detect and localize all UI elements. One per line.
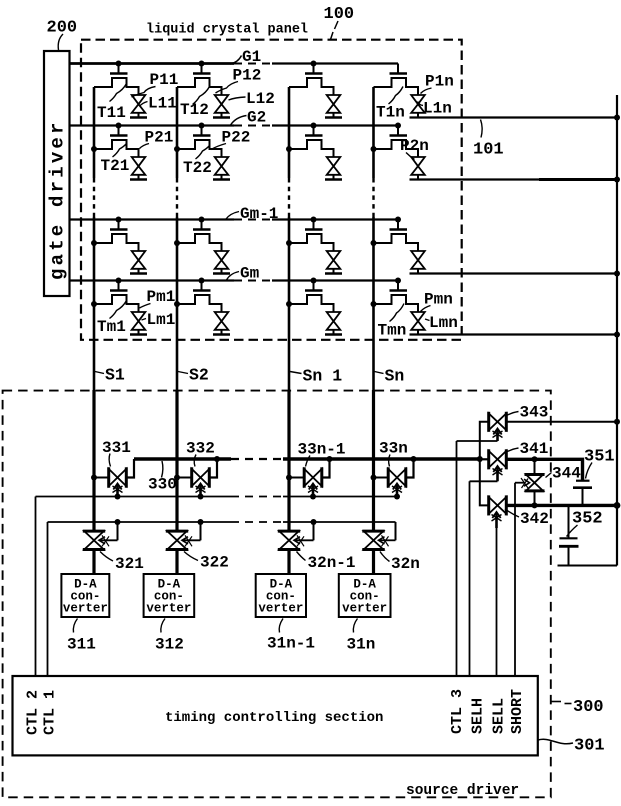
gate line Gm-1 — [70, 218, 399, 220]
control arrow into 33n-1 — [308, 484, 318, 497]
label 200 — [47, 19, 78, 51]
LC pixel Lm-11 — [130, 251, 147, 274]
transistor T1n — [374, 64, 419, 96]
svg-text:verter: verter — [342, 602, 387, 616]
svg-text:P2n: P2n — [400, 137, 429, 155]
svg-text:G1: G1 — [242, 48, 261, 66]
svg-text:343: 343 — [520, 404, 549, 422]
label 311 — [67, 619, 96, 654]
analog switch 341 — [489, 449, 507, 469]
liquid crystal panel boundary 100 — [81, 40, 462, 340]
svg-text:351: 351 — [584, 448, 615, 467]
LC pixel L1n — [411, 95, 425, 118]
wire common electrode row1 to 101 line — [410, 115, 621, 121]
svg-text:source driver: source driver — [406, 783, 519, 799]
D-A converter 31n — [339, 574, 391, 617]
transistor Tmn3 — [289, 278, 334, 313]
label P22 — [211, 129, 250, 150]
capacitor 351 — [573, 481, 592, 506]
D-A converter 311 — [61, 574, 109, 617]
LC pixel L23 — [325, 157, 342, 180]
label 341 — [507, 440, 549, 458]
transistor T11 — [94, 61, 139, 96]
label 33n — [379, 440, 408, 467]
gate line G1 — [70, 62, 399, 65]
svg-text:Sn 1: Sn 1 — [303, 367, 343, 386]
svg-text:CTL 2: CTL 2 — [25, 690, 42, 735]
label 332 — [186, 440, 215, 467]
transistor T21 — [94, 123, 139, 158]
wire 33n-1 input from Sn-1 — [289, 477, 304, 479]
svg-text:330: 330 — [148, 476, 177, 494]
wire 344 bottom lead — [534, 491, 536, 506]
source driver boundary 301 — [3, 391, 551, 798]
LC pixel Lmn — [411, 312, 425, 335]
svg-text:Lmn: Lmn — [429, 314, 458, 332]
control arrow into 342 — [492, 512, 502, 528]
wire 332 output riser to bus 330 — [209, 459, 217, 478]
LC pixel L12 — [213, 95, 230, 118]
LC pixel Lm1 — [130, 312, 147, 335]
label 312 — [155, 619, 184, 654]
analog switch 32n — [362, 531, 384, 549]
wire 343 output to 101 line — [507, 419, 621, 425]
label 351 — [584, 448, 615, 479]
svg-text:332: 332 — [186, 440, 215, 458]
junction dots on source lines — [91, 146, 377, 481]
wire common electrode row3 to 101 line — [410, 271, 621, 277]
svg-text:timing controlling section: timing controlling section — [165, 710, 383, 726]
transistor T22 — [177, 123, 222, 158]
analog switch 332 — [192, 467, 210, 487]
svg-text:T22: T22 — [183, 159, 212, 177]
svg-text:311: 311 — [67, 636, 96, 654]
D-A converter 312 — [144, 574, 195, 617]
wire 331 input from S1 — [94, 477, 109, 479]
svg-text:33n: 33n — [379, 440, 408, 458]
LC pixel Lm-1n — [411, 251, 425, 274]
label 330 — [148, 461, 177, 494]
svg-text:T11: T11 — [97, 104, 126, 122]
wire bus node riser to 343/342 inputs — [480, 422, 489, 506]
label 342 — [505, 509, 549, 528]
control arrow into 33n — [392, 484, 402, 497]
svg-text:SELL: SELL — [491, 698, 508, 734]
label 301 — [538, 737, 605, 756]
svg-text:verter: verter — [63, 602, 108, 616]
svg-text:SHORT: SHORT — [509, 689, 526, 734]
label Sn — [375, 367, 405, 386]
gate driver box 200 — [44, 51, 70, 296]
LC pixel L13 — [325, 95, 342, 118]
svg-text:G2: G2 — [247, 109, 266, 127]
svg-text:T1n: T1n — [376, 104, 405, 122]
bus 330 — [134, 456, 483, 462]
svg-text:322: 322 — [200, 554, 229, 572]
wire SELL to 342 control — [496, 528, 498, 676]
label L12 — [229, 90, 275, 108]
svg-text:101: 101 — [473, 141, 504, 160]
control arrow into 331 — [113, 484, 123, 497]
label G2 — [231, 109, 267, 127]
wire CTL1 control line for 32x switches — [48, 519, 396, 676]
wire SHORT to 344 control — [515, 478, 530, 676]
svg-text:301: 301 — [574, 737, 605, 756]
label Pm1 — [140, 288, 176, 308]
label 343 — [507, 404, 549, 422]
label G1 — [230, 48, 261, 66]
capacitor 352 — [559, 505, 579, 565]
label Gm — [227, 265, 260, 283]
label Gm-1 — [226, 205, 278, 223]
label Lm1 — [142, 311, 176, 329]
analog switch 331 — [109, 467, 127, 487]
wire 33n input from Sn — [374, 477, 389, 479]
transistor T13 — [289, 61, 334, 96]
svg-text:liquid crystal panel: liquid crystal panel — [146, 23, 308, 38]
label P1n — [421, 73, 454, 94]
label Tm1 — [97, 301, 127, 337]
transistor T2n — [374, 123, 419, 158]
wire 344 top lead — [534, 459, 536, 473]
control arrow into 322 — [182, 522, 201, 546]
wire CTL2 control line for 33x switches — [36, 494, 401, 677]
svg-text:300: 300 — [573, 698, 604, 717]
svg-text:SELH: SELH — [470, 698, 487, 734]
analog switch 33n — [388, 467, 406, 487]
wire CTL3 to 343 control — [457, 441, 498, 676]
LC pixel L22 — [213, 157, 230, 180]
label Lmn — [425, 314, 458, 332]
svg-text:verter: verter — [146, 602, 191, 616]
label 31n-1 — [267, 619, 315, 653]
analog switch 33n-1 — [304, 467, 322, 487]
D-A converter 31n-1 — [256, 574, 306, 617]
label T11 — [97, 84, 127, 123]
wire 331 output riser to bus 330 — [126, 459, 134, 478]
label T12 — [180, 87, 210, 120]
svg-text:verter: verter — [258, 602, 303, 616]
svg-text:T21: T21 — [101, 157, 130, 175]
svg-text:Sn: Sn — [385, 367, 405, 386]
label 321 — [100, 552, 144, 574]
LC pixel L21 — [130, 157, 147, 180]
control arrow into 343 — [493, 429, 503, 442]
label P12 — [216, 67, 262, 94]
svg-text:342: 342 — [520, 510, 549, 528]
svg-text:341: 341 — [520, 440, 549, 458]
label 32n-1 — [297, 552, 356, 573]
wire common electrode row2 to 101 line — [410, 177, 621, 183]
control arrow into 341 — [493, 466, 503, 481]
svg-text:Lm1: Lm1 — [147, 311, 176, 329]
analog switch 342 — [489, 495, 507, 515]
analog switch 32n-1 — [278, 531, 300, 549]
control arrow into 32n-1 — [294, 522, 314, 546]
label Sn-1 — [290, 367, 342, 386]
svg-text:331: 331 — [102, 439, 131, 457]
svg-text:Gm-1: Gm-1 — [240, 205, 278, 223]
LC pixel L2n — [411, 157, 425, 180]
label 100 — [324, 5, 355, 40]
svg-text:32n: 32n — [391, 555, 420, 573]
svg-text:L12: L12 — [246, 90, 275, 108]
label 344 — [546, 465, 582, 483]
LC pixel Lm-13 — [325, 251, 342, 274]
svg-text:Gm: Gm — [240, 265, 260, 283]
svg-text:100: 100 — [324, 5, 355, 24]
source line S2 — [176, 87, 179, 574]
svg-text:CTL 1: CTL 1 — [42, 690, 59, 735]
svg-text:32n-1: 32n-1 — [308, 554, 356, 572]
svg-text:S1: S1 — [105, 366, 125, 385]
svg-text:S2: S2 — [189, 366, 209, 385]
svg-text:31n: 31n — [347, 636, 376, 654]
label T1n — [376, 87, 405, 122]
svg-text:gate driver: gate driver — [47, 119, 69, 280]
svg-text:312: 312 — [155, 636, 184, 654]
source line S1 — [93, 87, 96, 574]
control arrow into 321 — [99, 522, 118, 546]
wire SELH to 341 control — [470, 481, 498, 676]
label 331 — [102, 439, 131, 467]
LC pixel Lm2 — [213, 312, 230, 335]
transistor Tm1 — [94, 278, 139, 313]
label 101 — [473, 120, 504, 160]
transistor T12 — [177, 61, 222, 96]
label Tmn — [378, 304, 407, 340]
analog switch 322 — [166, 531, 188, 549]
timing controlling section box 300 — [13, 676, 538, 755]
label 352 — [567, 510, 603, 537]
transistor Tmn — [374, 278, 419, 313]
wire 33n-1 output riser to bus 330 — [322, 459, 330, 478]
svg-text:L11: L11 — [148, 95, 177, 113]
label T21 — [101, 144, 130, 176]
analog switch 344 — [525, 475, 545, 491]
wire 341 input from bus 330 — [480, 458, 489, 460]
label L11 — [140, 95, 177, 113]
label P2n — [400, 137, 429, 160]
svg-text:Tmn: Tmn — [378, 322, 407, 340]
label S2 — [178, 366, 209, 385]
common electrode vertical line 101 — [616, 95, 618, 566]
label P21 — [140, 129, 174, 149]
gate line Gm — [70, 279, 399, 281]
transistor Tm-13 — [289, 217, 334, 252]
gate line G2 — [70, 124, 399, 126]
LC pixel Lm3 — [325, 312, 342, 335]
wire 341 output to capacitor 351 — [507, 456, 583, 480]
transistor Tm2 — [177, 278, 222, 313]
control arrow into 332 — [196, 484, 206, 497]
transistor Tm-12 — [177, 217, 222, 252]
wire 352 bottom to 101 line — [558, 565, 618, 567]
svg-text:Tm1: Tm1 — [97, 318, 126, 336]
svg-text:Pm1: Pm1 — [147, 288, 176, 306]
label Pmn — [421, 291, 453, 312]
label L1n — [418, 100, 452, 118]
label 31n — [347, 619, 376, 654]
analog switch 343 — [489, 412, 507, 432]
source line Sn — [372, 87, 375, 574]
control arrow into 32n — [379, 522, 396, 546]
svg-text:321: 321 — [115, 555, 144, 573]
svg-text:CTL 3: CTL 3 — [449, 689, 466, 734]
svg-text:L1n: L1n — [423, 100, 452, 118]
label 300 — [551, 698, 604, 717]
label 33n-1 — [298, 441, 346, 467]
transistor Tm-1n — [374, 217, 419, 252]
label 32n — [380, 552, 420, 574]
svg-text:33n-1: 33n-1 — [298, 441, 346, 459]
transistor T23 — [289, 123, 334, 158]
label P11 — [132, 71, 179, 97]
LC pixel Lm-12 — [213, 251, 230, 274]
wire 332 input from S2 — [177, 477, 192, 479]
label S1 — [95, 366, 125, 385]
wire 33n output riser to bus 330 — [406, 459, 414, 478]
wire 342 output to 101 line — [507, 502, 621, 509]
transistor Tm-11 — [94, 217, 139, 252]
LC pixel L11 — [130, 95, 147, 118]
wire common electrode row4 to 101 line — [410, 332, 621, 338]
svg-text:31n-1: 31n-1 — [267, 635, 315, 653]
label T22 — [183, 146, 212, 178]
analog switch 321 — [83, 531, 105, 549]
source line Sn-1 — [288, 87, 291, 574]
label 322 — [184, 552, 229, 572]
